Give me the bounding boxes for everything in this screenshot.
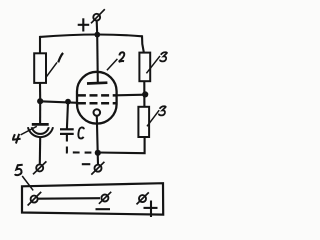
label 2 (119, 52, 125, 62)
capacitor C plates (60, 128, 74, 130)
wire R3b down and left to node E (98, 137, 145, 153)
cathode circle (94, 109, 101, 116)
box (telephone unit) (22, 183, 163, 214)
resistor R1 (34, 53, 46, 83)
wire R3a to R3b (143, 81, 145, 107)
wire microphone to terminal T2 (39, 137, 42, 164)
plus sign at right terminal (144, 201, 158, 218)
node B junction dot (37, 98, 43, 104)
label 5 (15, 165, 23, 175)
wire grid1 to right node (116, 94, 145, 97)
node A anode junction dot (94, 32, 100, 38)
resistor R3b (bottom 3) (138, 107, 149, 137)
minus sign below middle terminal (96, 208, 111, 210)
grid 1 dashed (upper) (78, 94, 116, 97)
wire R1 to grid node (39, 83, 41, 101)
plus sign supply (78, 18, 90, 31)
wire left branch top (39, 36, 41, 54)
node E junction dot (cathode node) (95, 150, 101, 156)
leader for label 4 (21, 126, 37, 135)
box terminal middle (99, 192, 111, 204)
wire grid bus left (40, 101, 77, 103)
resistor R3a (top 3) (139, 53, 150, 82)
node C junction dot (65, 99, 71, 105)
wire top bus (40, 34, 142, 36)
leader for label 3 bottom (147, 110, 159, 126)
anode bar (87, 81, 107, 85)
wire node B to microphone (39, 101, 41, 123)
label 3 top (160, 52, 167, 61)
leader for label 3 top (146, 56, 160, 73)
capacitor C lead (67, 102, 68, 130)
leader for label 2 (107, 59, 118, 70)
microphone M outer arc (28, 127, 53, 137)
microphone M inner arc (32, 127, 49, 134)
wire top bus corner to R3a (142, 35, 144, 53)
wire inside box (38, 197, 100, 200)
dashed link C to node E (67, 135, 95, 153)
node D junction dot (142, 91, 148, 97)
tube U1 envelope (77, 72, 117, 124)
terminal T3 (cathode, minus) (91, 162, 104, 175)
label 1 (58, 53, 63, 62)
box terminal right (137, 192, 149, 204)
grid 2 dashed (lower) (78, 102, 116, 105)
anode lead (96, 35, 99, 83)
cathode lead (97, 116, 98, 165)
terminal T2 (microphone) (33, 161, 46, 174)
label 3 bottom (159, 106, 166, 115)
leader for label 1 (46, 62, 57, 77)
label 4 (13, 134, 21, 144)
box terminal left (28, 192, 42, 206)
minus sign at T3 (82, 163, 91, 165)
label C (78, 127, 84, 138)
leader for label 5 (22, 176, 33, 190)
terminal T1 (+ supply) (91, 9, 105, 34)
microphone M (element 4): top plate bar (32, 123, 49, 126)
